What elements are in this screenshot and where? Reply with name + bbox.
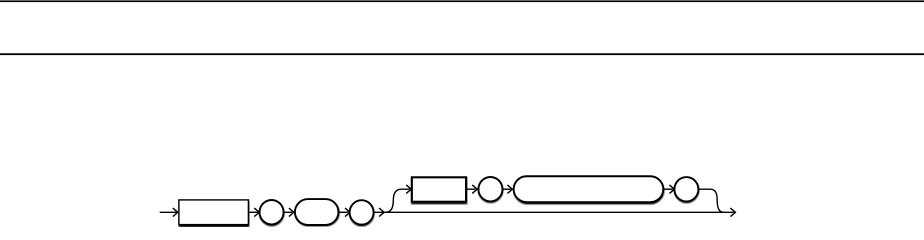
wire: oval1 to stadium1 [284, 211, 292, 213]
shadow of oval 3 [478, 177, 503, 203]
arrowhead on baseline before branch [379, 208, 384, 217]
oval 3 [478, 177, 502, 201]
oval 1 [260, 200, 284, 224]
shadow of oval 2 [349, 201, 374, 227]
shadow of box 2 [411, 178, 467, 205]
wire: baseline bypass [374, 211, 733, 213]
wire: stadium1 to oval2 [339, 211, 348, 213]
wire: branch down curve [699, 189, 724, 212]
arrowhead at exit [730, 208, 735, 217]
wire: oval3 to stadium2 [503, 188, 511, 190]
wire: box2 to oval3 [467, 188, 476, 190]
wire: stadium2 to oval4 [664, 188, 673, 190]
shadow of stadium 2 [514, 177, 665, 205]
top rule [0, 0, 924, 2]
oval 2 [350, 200, 374, 224]
header rule [0, 53, 924, 55]
oval 4 [674, 177, 698, 201]
stadium 2 [514, 176, 664, 202]
arrowhead into stadium 2 [507, 185, 512, 194]
shadow of stadium 1 [295, 200, 340, 227]
arrowhead into oval 2 [345, 208, 350, 217]
box 1 [179, 200, 249, 225]
shadow of oval 4 [674, 178, 699, 204]
shadow of oval 1 [259, 200, 284, 226]
arrowhead into oval 4 [669, 185, 674, 194]
box 2 [412, 177, 466, 201]
arrowhead into box 1 [173, 208, 178, 217]
wire: entry line [160, 211, 177, 213]
wire: branch up curve [386, 189, 410, 212]
wire: box1 to oval1 [249, 211, 258, 213]
arrowhead into box 2 [406, 185, 411, 194]
arrowhead into stadium 1 [289, 208, 294, 217]
arrowhead into oval 1 [254, 208, 259, 217]
arrowhead into oval 3 [472, 185, 477, 194]
shadow of box 1 [179, 201, 250, 227]
stadium 1 [295, 199, 339, 225]
